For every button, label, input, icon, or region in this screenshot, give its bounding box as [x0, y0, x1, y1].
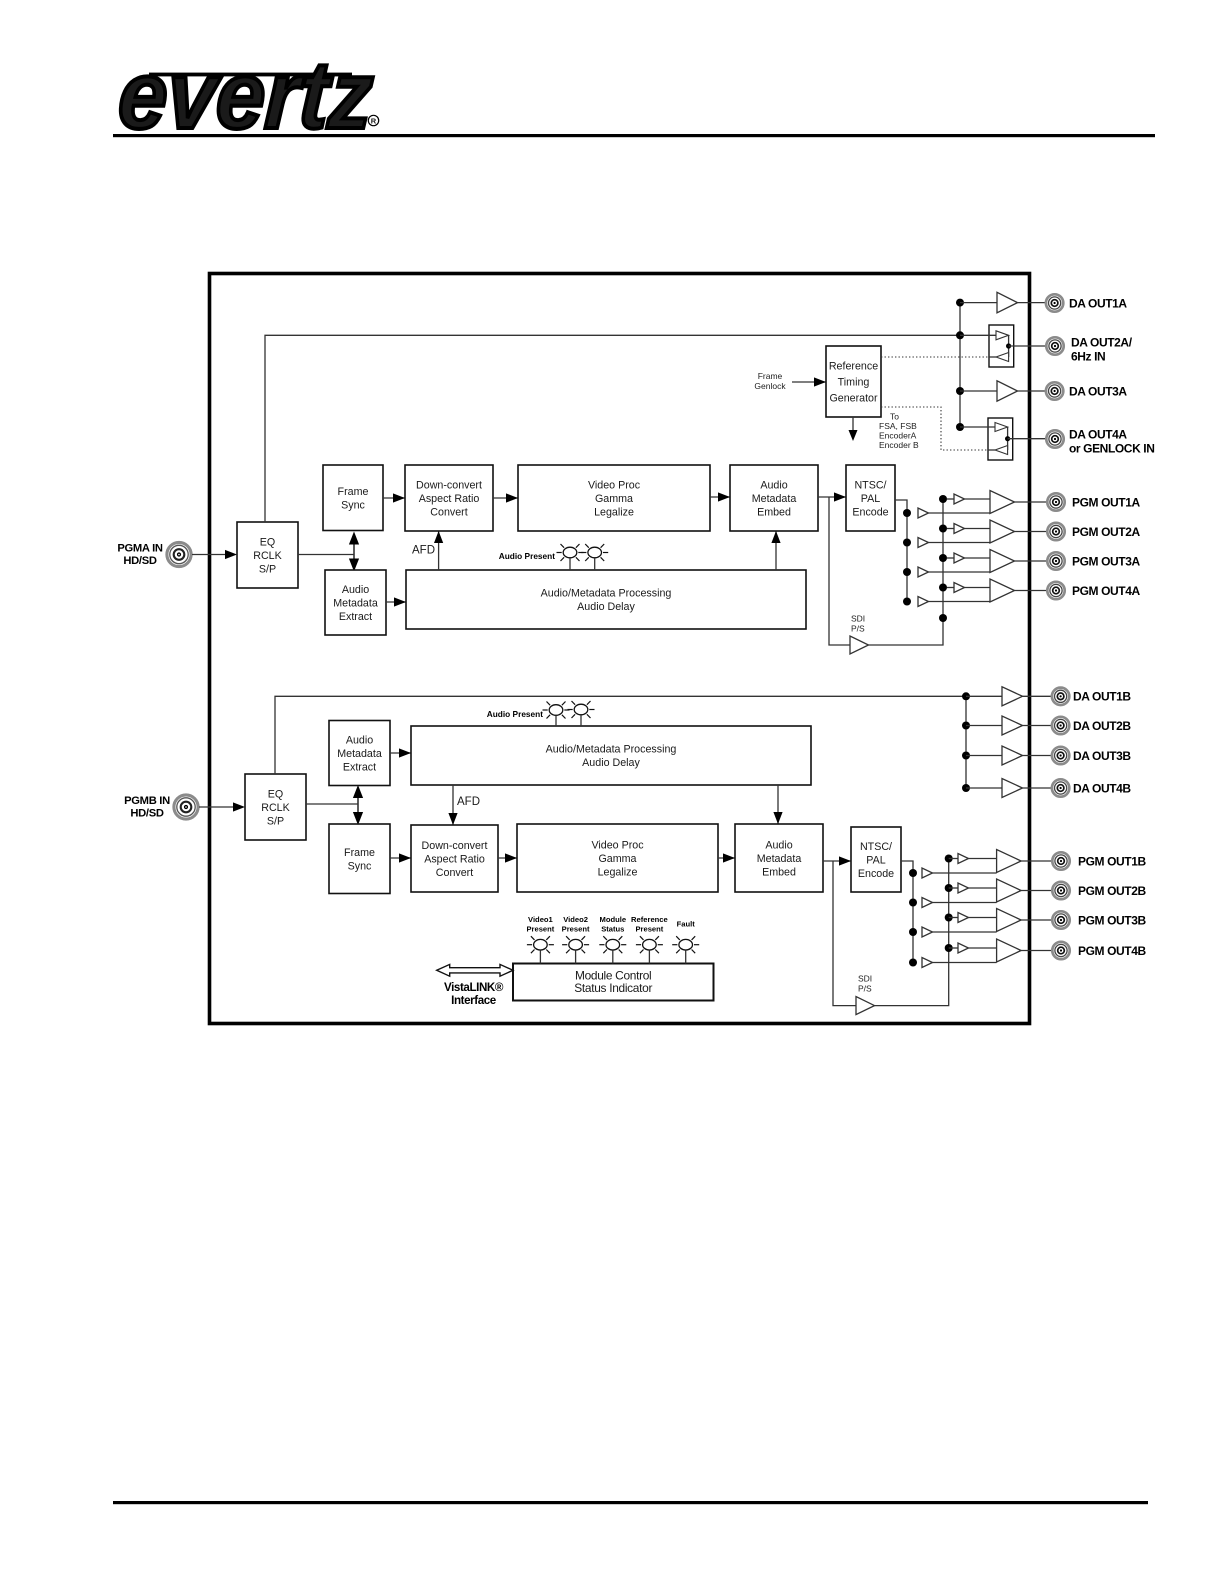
block Frame Sync B: [329, 824, 390, 894]
block Video Proc Gamma Legalize B: [517, 824, 718, 892]
label Frame Genlock: [754, 371, 786, 391]
driver DA OUT1A: [960, 292, 1047, 313]
svg-text:R: R: [371, 117, 377, 126]
BNC connector DA OUT3A: [1046, 382, 1063, 399]
junction dot composite bus B row 2: [909, 899, 917, 907]
svg-text:Legalize: Legalize: [598, 866, 638, 878]
DA bus A vertical: [959, 303, 961, 427]
svg-text:Present: Present: [562, 925, 590, 934]
bidirectional arrow B between Audio Metadata Extract B and Frame Sync B: [353, 785, 363, 825]
svg-text:Metadata: Metadata: [752, 493, 797, 505]
buffer composite tap A row 3: [918, 567, 990, 577]
svg-text:P/S: P/S: [858, 984, 872, 994]
buffer composite tap A row 1: [918, 508, 990, 518]
svg-text:Module: Module: [600, 915, 627, 924]
svg-text:Audio/Metadata Processing: Audio/Metadata Processing: [546, 744, 677, 756]
block Audio Metadata Embed B: [735, 824, 823, 892]
block Module Control Status Indicator: [513, 964, 714, 1001]
svg-text:SDI: SDI: [858, 974, 872, 984]
wire Frame Sync B to Down-convert B: [390, 853, 411, 862]
junction dot DA bus B row 2: [962, 722, 970, 730]
wire loop rail B from EQ B to DA bus B: [275, 696, 966, 774]
svg-text:VistaLINK®: VistaLINK®: [444, 981, 504, 994]
junction dot composite bus A row 3: [903, 568, 911, 576]
BNC connector PGM OUT1B: [1052, 852, 1069, 869]
block EQ RCLK S/P B: [245, 774, 306, 840]
svg-text:Encode: Encode: [858, 868, 894, 880]
label status LED 1 Video1 Present: [526, 915, 554, 934]
svg-text:Frame: Frame: [344, 847, 375, 859]
junction dot SDI bus B row 4: [945, 944, 953, 952]
label DA OUT4A / or GENLOCK IN: [1069, 427, 1154, 455]
arrow Reference Timing Generator down: [849, 417, 858, 441]
dashed wire Reference Timing Generator to DA OUT2A: [881, 356, 989, 358]
buffer SDI tap B row 2: [949, 883, 997, 893]
junction dot SDI bus A: [939, 614, 947, 622]
svg-text:Frame: Frame: [758, 371, 783, 381]
header rule: [113, 134, 1155, 137]
svg-text:Aspect Ratio: Aspect Ratio: [419, 493, 480, 505]
driver DA OUT3B: [966, 746, 1052, 765]
bidirectional buffer DA OUT4A or GENLOCK IN: [960, 418, 1047, 460]
wire PGMA IN to EQ A: [192, 550, 237, 559]
label DA OUT2A / 6Hz IN: [1071, 335, 1133, 363]
svg-text:Present: Present: [526, 925, 554, 934]
BNC connector PGM OUT2A: [1047, 523, 1064, 540]
BNC connector PGM OUT4A: [1047, 582, 1064, 599]
svg-text:Audio: Audio: [342, 584, 369, 596]
LED Audio Present A 2: [581, 544, 608, 570]
output driver PGM OUT2A: [990, 520, 1015, 543]
label PGMB IN HD/SD: [124, 795, 170, 820]
AFD arrow A into Down-convert A: [434, 531, 443, 570]
wire SDI P/S B output to SDI bus B: [875, 859, 949, 1006]
wire Down-convert B to Video Proc B: [498, 853, 517, 862]
svg-text:AFD: AFD: [457, 796, 480, 808]
svg-text:Video Proc: Video Proc: [588, 479, 641, 491]
svg-text:NTSC/: NTSC/: [860, 841, 892, 853]
svg-text:PGMA IN: PGMA IN: [117, 543, 163, 555]
svg-text:PGM OUT1B: PGM OUT1B: [1078, 854, 1146, 868]
block Down-convert Aspect Ratio Convert A: [405, 465, 493, 531]
output driver PGM OUT2B: [997, 879, 1022, 902]
svg-text:To: To: [890, 412, 899, 422]
buffer composite tap B row 4: [922, 958, 997, 968]
svg-text:Status: Status: [601, 925, 624, 934]
BNC connector PGMB IN: [174, 795, 198, 819]
svg-text:Audio/Metadata Processing: Audio/Metadata Processing: [541, 588, 672, 600]
svg-text:PGM OUT1A: PGM OUT1A: [1072, 495, 1140, 509]
label SDI P/S A: [851, 614, 865, 634]
BNC connector PGMA IN: [167, 542, 191, 566]
svg-text:Reference: Reference: [829, 360, 878, 372]
junction dot DA bus A row 4: [956, 423, 964, 431]
svg-text:PGM OUT2A: PGM OUT2A: [1072, 525, 1140, 539]
svg-text:PGM OUT4B: PGM OUT4B: [1078, 944, 1146, 958]
junction dot composite bus B row 1: [909, 869, 917, 877]
junction dot DA bus B row 3: [962, 752, 970, 760]
junction dot SDI bus B row 1: [945, 855, 953, 863]
wire NTSC Encode B output to composite bus B: [901, 861, 913, 964]
svg-text:SDI: SDI: [851, 614, 865, 624]
buffer SDI tap B row 4: [949, 943, 997, 953]
svg-text:DA OUT4B: DA OUT4B: [1073, 781, 1131, 795]
block Audio Metadata Extract A: [325, 570, 386, 635]
svg-text:Extract: Extract: [343, 761, 376, 773]
svg-text:Audio: Audio: [765, 839, 792, 851]
label SDI P/S B: [858, 974, 872, 994]
BNC connector PGM OUT4B: [1052, 942, 1069, 959]
output driver PGM OUT1B: [997, 850, 1022, 873]
svg-text:6Hz IN: 6Hz IN: [1071, 349, 1105, 363]
wire NTSC Encode A output to composite bus A: [895, 500, 907, 602]
junction dot SDI bus A row 1: [939, 495, 947, 503]
svg-text:S/P: S/P: [267, 815, 284, 827]
wire Video Proc B to Audio Metadata Embed B: [718, 853, 735, 862]
block Frame Sync A: [323, 465, 383, 531]
output driver PGM OUT4A: [990, 579, 1015, 602]
bidirectional buffer DA OUT2A: [960, 325, 1047, 367]
wire Audio Metadata Extract A to Audio/Metadata Processing A: [386, 597, 406, 606]
junction dot composite bus B row 3: [909, 928, 917, 936]
svg-text:PGMB IN: PGMB IN: [124, 795, 170, 807]
driver DA OUT3A: [960, 381, 1047, 402]
svg-text:DA OUT1A: DA OUT1A: [1069, 296, 1127, 310]
svg-text:EQ: EQ: [260, 536, 275, 548]
junction dot DA bus A row 1: [956, 299, 964, 307]
buffer composite tap B row 2: [922, 898, 997, 908]
block Audio/Metadata Processing Audio Delay B: [411, 726, 811, 785]
svg-text:Reference: Reference: [631, 915, 668, 924]
DA bus B vertical: [965, 696, 967, 788]
svg-text:Gamma: Gamma: [595, 493, 633, 505]
LED Audio Present B 1: [543, 702, 570, 727]
svg-text:EncoderA: EncoderA: [879, 431, 917, 441]
svg-text:Audio: Audio: [760, 479, 787, 491]
svg-text:Encoder B: Encoder B: [879, 440, 919, 450]
svg-text:Genlock: Genlock: [754, 381, 786, 391]
junction dot composite bus B row 4: [909, 959, 917, 967]
svg-text:RCLK: RCLK: [253, 550, 282, 562]
svg-text:S/P: S/P: [259, 563, 276, 575]
buffer composite tap A row 2: [918, 538, 990, 548]
driver DA OUT1B: [966, 687, 1052, 706]
buffer composite tap B row 3: [922, 927, 997, 937]
buffer SDI tap A row 3: [947, 553, 990, 563]
svg-text:Extract: Extract: [339, 611, 372, 623]
block NTSC/PAL Encode B: [851, 827, 901, 892]
BNC connector DA OUT1B: [1052, 688, 1069, 705]
wire to BNC PGM OUT1B: [1021, 860, 1052, 862]
wire Down-convert A to Video Proc A: [493, 493, 518, 502]
LED Audio Present A 1: [557, 544, 584, 570]
wire to BNC PGM OUT1A: [1015, 501, 1048, 503]
svg-text:DA OUT2A/: DA OUT2A/: [1071, 335, 1133, 349]
svg-text:Metadata: Metadata: [757, 853, 802, 865]
wire SDI P/S A output to SDI bus A: [869, 499, 944, 645]
svg-text:PGM OUT4A: PGM OUT4A: [1072, 584, 1140, 598]
svg-text:Video Proc: Video Proc: [591, 839, 644, 851]
buffer SDI P/S A: [850, 636, 869, 654]
wire PGMB IN to EQ B: [199, 802, 245, 811]
block NTSC/PAL Encode A: [846, 465, 895, 531]
status LED 1: [527, 936, 554, 963]
block Audio/Metadata Processing Audio Delay A: [406, 570, 806, 629]
wire Audio Metadata Embed B to NTSC/PAL Encode B: [823, 856, 851, 865]
wire Audio Metadata Extract B to Audio/Metadata Processing B: [390, 748, 411, 757]
status LED 3: [599, 936, 626, 963]
wire Video Proc A to Audio Metadata Embed A: [710, 492, 730, 501]
evertz logo: [116, 42, 379, 149]
svg-text:EQ: EQ: [268, 788, 283, 800]
junction dot SDI bus B row 2: [945, 884, 953, 892]
buffer composite tap A row 4: [918, 597, 990, 607]
svg-text:DA OUT3A: DA OUT3A: [1069, 384, 1127, 398]
BNC connector DA OUT4A: [1046, 430, 1063, 447]
wire to BNC PGM OUT2B: [1021, 890, 1052, 892]
dashed wire Reference Timing Generator to DA OUT4A: [881, 407, 988, 450]
wire Audio/Metadata Processing A to Audio Metadata Embed A: [771, 531, 780, 570]
svg-text:Fault: Fault: [677, 920, 696, 929]
junction dot composite bus A row 2: [903, 539, 911, 547]
svg-text:FSA, FSB: FSA, FSB: [879, 421, 917, 431]
BNC connector DA OUT3B: [1052, 747, 1069, 764]
junction dot DA bus A row 3: [956, 387, 964, 395]
svg-text:Video2: Video2: [563, 915, 588, 924]
svg-text:Convert: Convert: [436, 867, 473, 879]
wire Audio/Metadata Processing B down to Audio Metadata Embed B: [773, 785, 782, 824]
svg-text:Sync: Sync: [341, 499, 365, 511]
VistaLINK interface double arrow: [437, 964, 513, 976]
svg-text:Encode: Encode: [852, 506, 888, 518]
block EQ RCLK S/P A: [237, 522, 298, 588]
svg-text:AFD: AFD: [412, 545, 435, 557]
svg-text:Embed: Embed: [757, 506, 791, 518]
svg-text:RCLK: RCLK: [261, 802, 290, 814]
label status LED 3 Module Status: [600, 915, 627, 934]
svg-text:Audio Delay: Audio Delay: [577, 601, 635, 613]
buffer SDI tap A row 1: [947, 494, 990, 504]
svg-text:PGM OUT3A: PGM OUT3A: [1072, 554, 1140, 568]
label status LED 4 Reference Present: [631, 915, 668, 934]
wire to BNC PGM OUT3A: [1015, 560, 1048, 562]
svg-text:Generator: Generator: [829, 392, 878, 404]
svg-text:Audio Delay: Audio Delay: [582, 757, 640, 769]
svg-text:DA OUT4A: DA OUT4A: [1069, 427, 1127, 441]
svg-text:DA OUT2B: DA OUT2B: [1073, 719, 1131, 733]
svg-text:Audio Present: Audio Present: [499, 551, 555, 561]
buffer SDI tap A row 4: [947, 583, 990, 593]
LED Audio Present B 2: [568, 701, 595, 726]
wire to BNC PGM OUT2A: [1015, 531, 1048, 533]
junction dot composite bus A row 4: [903, 598, 911, 606]
svg-text:Down-convert: Down-convert: [416, 479, 482, 491]
svg-text:HD/SD: HD/SD: [123, 555, 157, 567]
junction dot DA bus B row 4: [962, 784, 970, 792]
svg-text:Embed: Embed: [762, 866, 796, 878]
label status LED 5 Fault: [677, 920, 696, 929]
output driver PGM OUT1A: [990, 491, 1015, 514]
label VistaLINK Interface: [444, 981, 504, 1007]
buffer SDI P/S B: [856, 997, 875, 1015]
BNC connector PGM OUT2B: [1052, 882, 1069, 899]
junction dot SDI bus A row 2: [939, 525, 947, 533]
wire EQ A output to junction: [298, 554, 354, 556]
output driver PGM OUT3A: [990, 550, 1015, 573]
BNC connector PGM OUT1A: [1047, 493, 1064, 510]
wire Frame Genlock to Reference Timing Generator: [792, 377, 826, 386]
junction dot SDI bus A row 4: [939, 584, 947, 592]
BNC connector DA OUT1A: [1046, 294, 1063, 311]
svg-text:Timing: Timing: [838, 376, 870, 388]
driver DA OUT2B: [966, 716, 1052, 735]
status LED 4: [636, 936, 663, 963]
junction dot SDI bus A row 3: [939, 554, 947, 562]
output driver PGM OUT3B: [997, 909, 1022, 932]
svg-text:evertz: evertz: [116, 42, 376, 149]
block Audio Metadata Embed A: [730, 465, 818, 531]
buffer SDI tap A row 2: [947, 524, 990, 534]
output driver PGM OUT4B: [997, 939, 1022, 962]
wire EQ B output to junction: [306, 803, 358, 805]
driver DA OUT4B: [966, 779, 1052, 798]
block Video Proc Gamma Legalize A: [518, 465, 710, 531]
wire Audio Metadata Embed A to NTSC/PAL Encode A: [818, 492, 846, 501]
wire SDI tap B to serializer: [833, 861, 856, 1006]
junction dot SDI bus B row 3: [945, 914, 953, 922]
svg-text:Metadata: Metadata: [337, 748, 382, 760]
diagram outer border: [210, 274, 1030, 1024]
buffer composite tap B row 1: [922, 868, 997, 878]
svg-text:P/S: P/S: [851, 624, 865, 634]
svg-text:or GENLOCK IN: or GENLOCK IN: [1069, 441, 1154, 455]
AFD arrow B into Down-convert B: [448, 785, 457, 825]
svg-text:PAL: PAL: [866, 854, 885, 866]
wire to BNC PGM OUT4A: [1015, 590, 1048, 592]
block Audio Metadata Extract B: [329, 721, 390, 786]
buffer SDI tap B row 3: [949, 913, 997, 923]
svg-text:Frame: Frame: [338, 486, 369, 498]
svg-text:Audio Present: Audio Present: [487, 709, 543, 719]
svg-text:Interface: Interface: [451, 994, 497, 1007]
svg-text:Down-convert: Down-convert: [422, 840, 488, 852]
bidirectional arrow A between Frame Sync A and Audio Metadata Extract A: [349, 532, 359, 572]
svg-text:PAL: PAL: [861, 493, 880, 505]
BNC connector DA OUT4B: [1052, 779, 1069, 796]
wire SDI tap A to serializer: [829, 497, 850, 645]
svg-text:Legalize: Legalize: [594, 506, 634, 518]
svg-text:Aspect Ratio: Aspect Ratio: [424, 853, 485, 865]
buffer SDI tap B row 1: [949, 854, 997, 864]
svg-text:Convert: Convert: [430, 506, 467, 518]
junction dot composite bus A row 1: [903, 509, 911, 517]
status LED 5: [672, 936, 699, 963]
junction dot DA bus A row 2: [956, 331, 964, 339]
block Down-convert Aspect Ratio Convert B: [411, 825, 498, 892]
svg-text:NTSC/: NTSC/: [854, 479, 886, 491]
wire Frame Sync A to Down-convert A: [383, 493, 405, 502]
wire to BNC PGM OUT3B: [1021, 919, 1052, 921]
svg-text:PGM OUT3B: PGM OUT3B: [1078, 913, 1146, 927]
svg-text:Present: Present: [635, 925, 663, 934]
footer rule: [113, 1501, 1148, 1504]
BNC connector DA OUT2A: [1046, 337, 1063, 354]
svg-text:DA OUT3B: DA OUT3B: [1073, 749, 1131, 763]
svg-text:Audio: Audio: [346, 734, 373, 746]
BNC connector DA OUT2B: [1052, 717, 1069, 734]
label To FSA FSB EncoderA Encoder B: [879, 412, 919, 451]
svg-text:HD/SD: HD/SD: [130, 808, 164, 820]
BNC connector PGM OUT3B: [1052, 911, 1069, 928]
BNC connector PGM OUT3A: [1047, 552, 1064, 569]
junction dot DA bus B row 1: [962, 692, 970, 700]
label PGMA IN HD/SD: [117, 543, 163, 568]
svg-text:Metadata: Metadata: [333, 597, 378, 609]
svg-text:DA OUT1B: DA OUT1B: [1073, 690, 1131, 704]
label status LED 2 Video2 Present: [562, 915, 590, 934]
wire to BNC PGM OUT4B: [1021, 950, 1052, 952]
svg-text:PGM OUT2B: PGM OUT2B: [1078, 884, 1146, 898]
svg-text:Video1: Video1: [528, 915, 554, 924]
svg-text:Gamma: Gamma: [598, 853, 636, 865]
wire loop rail A from EQ A to DA bus A: [265, 335, 960, 522]
svg-text:Status Indicator: Status Indicator: [574, 981, 652, 995]
svg-text:Sync: Sync: [348, 860, 372, 872]
block Reference Timing Generator: [826, 346, 881, 417]
status LED 2: [562, 936, 589, 963]
